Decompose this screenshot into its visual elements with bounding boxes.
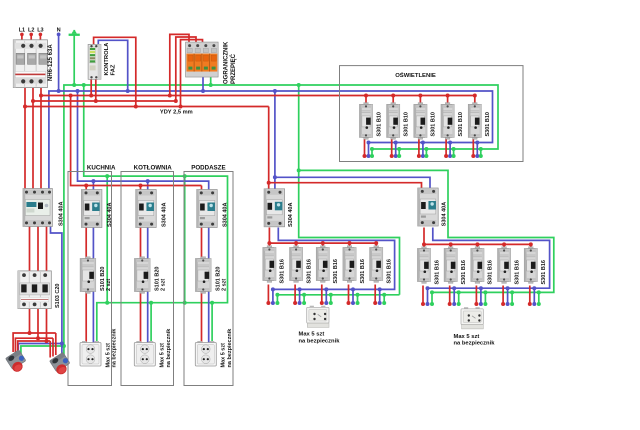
svg-text:S103 C20: S103 C20 xyxy=(55,284,61,308)
svg-text:na bezpiecznik: na bezpiecznik xyxy=(112,328,118,368)
svg-text:S304 40A: S304 40A xyxy=(162,203,168,227)
svg-text:na bezpiecznik: na bezpiecznik xyxy=(299,339,341,345)
svg-text:Max 5 szt: Max 5 szt xyxy=(454,334,480,340)
svg-text:S304 40A: S304 40A xyxy=(442,202,448,226)
svg-text:PRZEPIĘĆ: PRZEPIĘĆ xyxy=(229,53,237,84)
svg-text:S301 B16: S301 B16 xyxy=(541,260,547,284)
svg-text:S301 B10: S301 B10 xyxy=(404,112,410,136)
svg-text:L3: L3 xyxy=(37,27,43,33)
svg-text:NH6-125 63A: NH6-125 63A xyxy=(48,44,54,81)
svg-text:S301 B16: S301 B16 xyxy=(306,259,312,283)
svg-text:L2: L2 xyxy=(28,27,34,33)
svg-text:N: N xyxy=(57,28,61,34)
svg-text:OŚWIETLENIE: OŚWIETLENIE xyxy=(395,72,436,79)
svg-text:S301 B16: S301 B16 xyxy=(387,259,393,283)
svg-text:Max 5 szt: Max 5 szt xyxy=(299,332,325,338)
svg-text:S301 B10: S301 B10 xyxy=(376,112,382,136)
svg-text:S301 B10: S301 B10 xyxy=(485,112,491,136)
svg-text:2 szt: 2 szt xyxy=(161,279,167,291)
svg-text:PODDASZE: PODDASZE xyxy=(191,165,225,172)
svg-text:OGRANICZNIK: OGRANICZNIK xyxy=(224,41,230,84)
svg-text:S301 B10: S301 B10 xyxy=(458,112,464,136)
svg-text:S304 40A: S304 40A xyxy=(59,202,65,226)
svg-text:2 szt: 2 szt xyxy=(106,279,112,291)
svg-text:na bezpiecznik: na bezpiecznik xyxy=(454,341,496,347)
svg-text:YDY 2,5 mm: YDY 2,5 mm xyxy=(160,109,193,115)
svg-text:S301 B10: S301 B10 xyxy=(431,112,437,136)
svg-text:S301 B16: S301 B16 xyxy=(434,260,440,284)
svg-text:L1: L1 xyxy=(19,27,25,33)
svg-text:KOTŁOWNIA: KOTŁOWNIA xyxy=(134,165,173,172)
svg-text:Max 5 szt: Max 5 szt xyxy=(221,343,227,368)
svg-text:S301 B16: S301 B16 xyxy=(280,259,286,283)
svg-text:Max 5 szt: Max 5 szt xyxy=(105,343,111,368)
svg-text:FAZ: FAZ xyxy=(111,64,117,75)
svg-text:S301 B16: S301 B16 xyxy=(488,260,494,284)
svg-text:2 szt: 2 szt xyxy=(222,279,228,291)
svg-text:na bezpiecznik: na bezpiecznik xyxy=(166,328,172,368)
svg-text:KUCHNIA: KUCHNIA xyxy=(87,165,116,172)
svg-text:na bezpiecznik: na bezpiecznik xyxy=(227,328,233,368)
svg-text:S301 B16: S301 B16 xyxy=(461,260,467,284)
svg-text:S304 40A: S304 40A xyxy=(107,203,113,227)
svg-text:S301 B16: S301 B16 xyxy=(360,259,366,283)
svg-text:S301 B16: S301 B16 xyxy=(514,260,520,284)
svg-text:Max 5 szt: Max 5 szt xyxy=(160,343,166,368)
svg-text:S301 B16: S301 B16 xyxy=(333,259,339,283)
svg-text:KONTROLA: KONTROLA xyxy=(104,42,110,76)
svg-text:S304 40A: S304 40A xyxy=(223,203,229,227)
svg-text:S304 40A: S304 40A xyxy=(288,203,294,227)
